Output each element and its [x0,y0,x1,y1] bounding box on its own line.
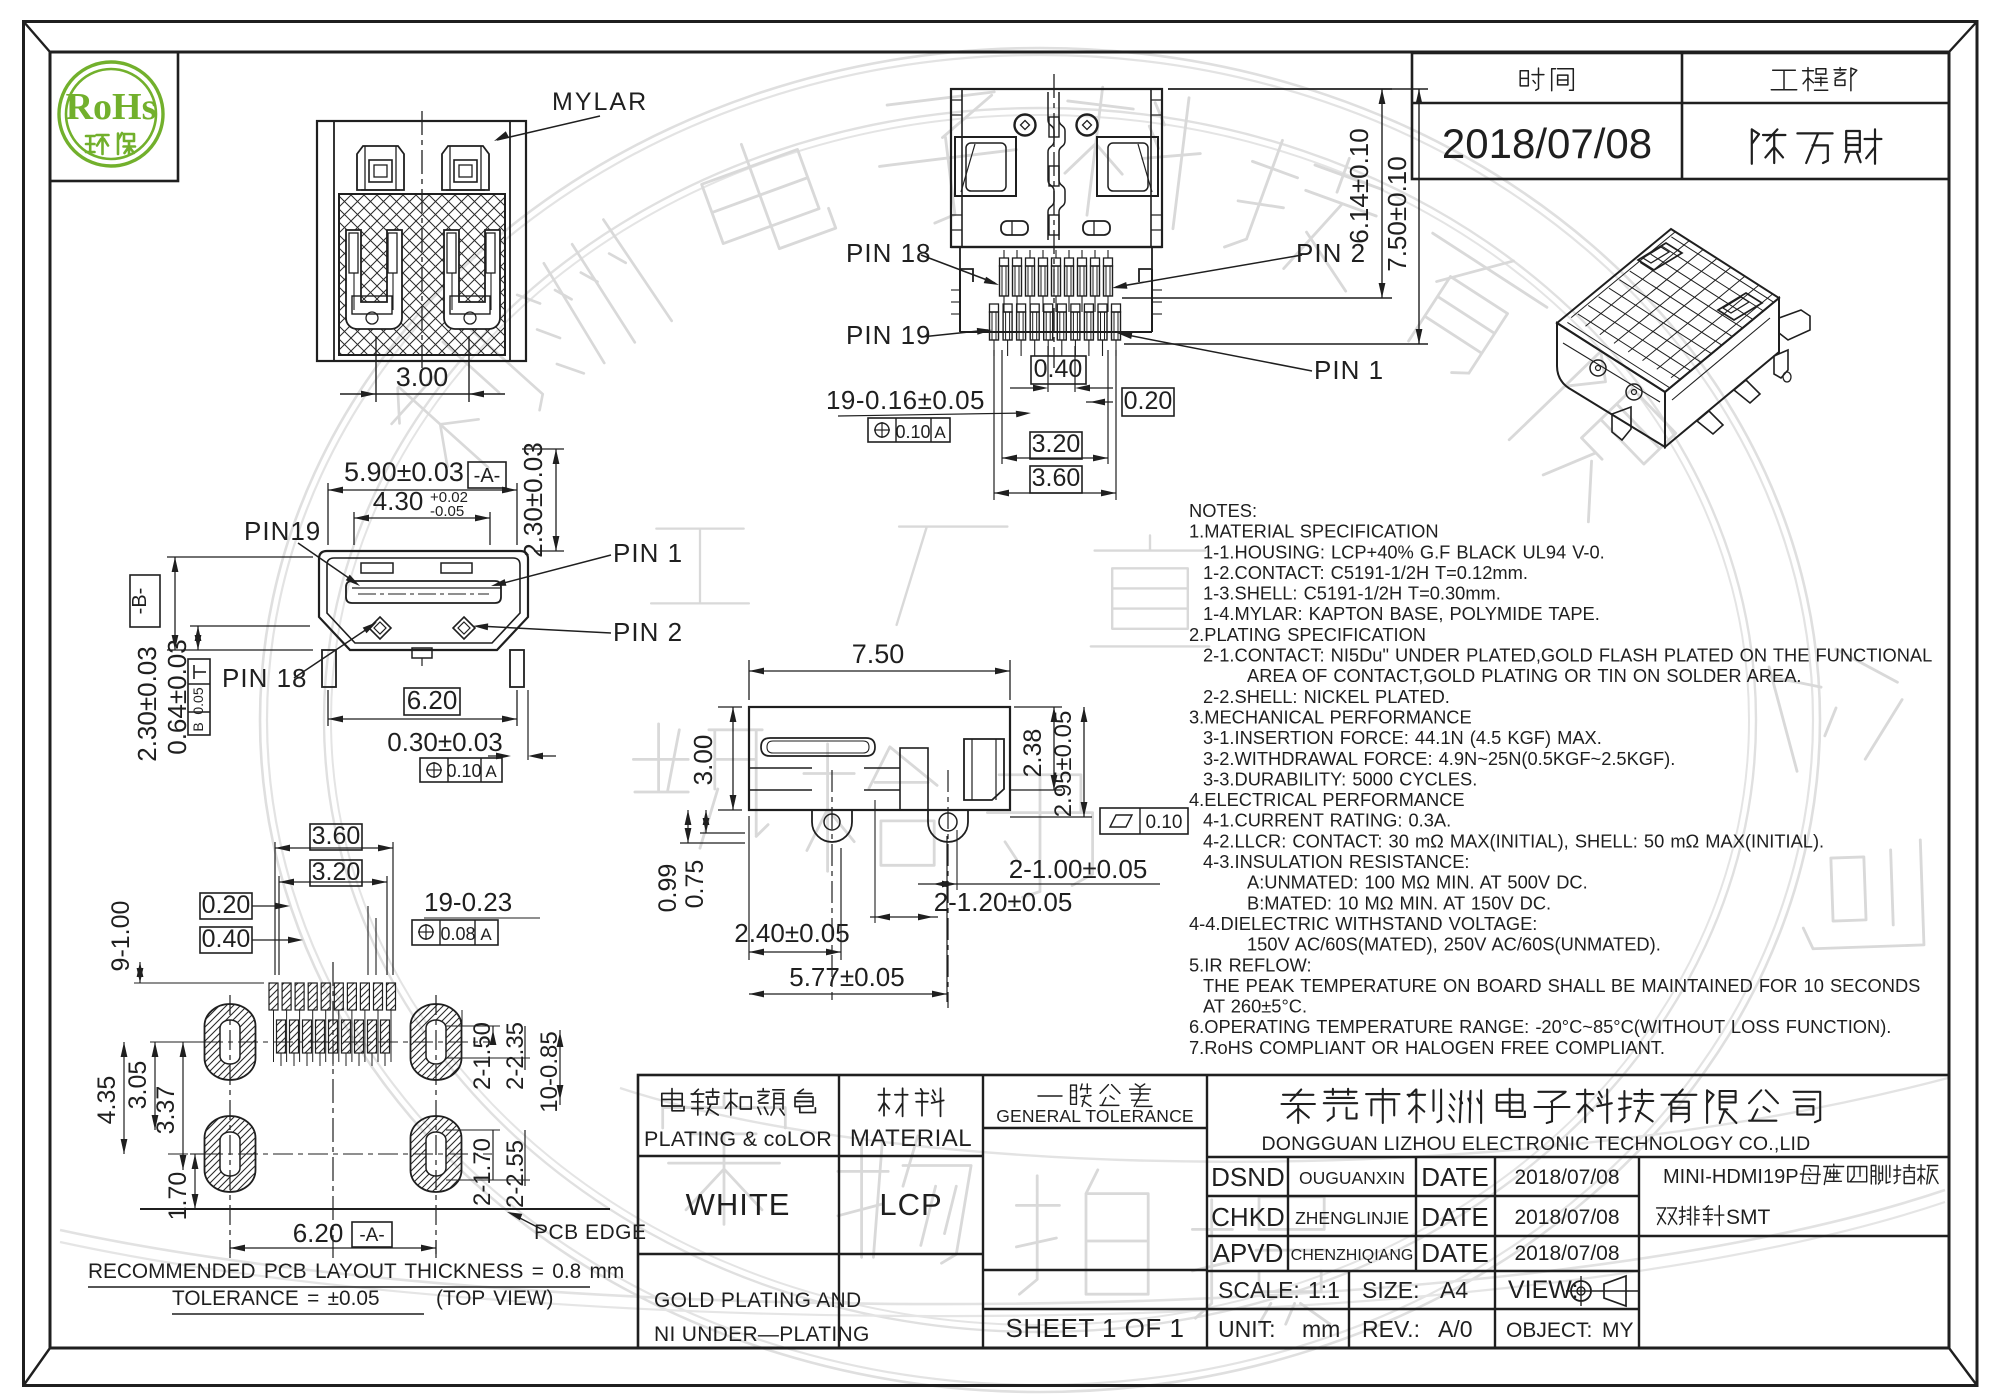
svg-text:0.05: 0.05 [190,687,206,714]
svg-text:2018/07/08: 2018/07/08 [1514,1242,1619,1265]
svg-text:0.10: 0.10 [895,422,930,442]
svg-text:CHKD: CHKD [1211,1202,1285,1232]
svg-text:A4: A4 [1440,1277,1468,1303]
svg-text:SMT: SMT [1726,1206,1771,1229]
svg-text:2.38: 2.38 [1019,729,1047,778]
oval mounting pads [205,1004,256,1080]
svg-text:VIEW:: VIEW: [1508,1276,1578,1304]
MYLAR label [494,88,648,141]
mating face view outline [319,551,528,650]
svg-text:3-2.WITHDRAWAL FORCE: 4.9N~2: 3-2.WITHDRAWAL FORCE: 4.9N~25N(0.5KGF~2.… [1203,748,1675,769]
svg-text:0.40: 0.40 [202,925,251,953]
svg-text:UNIT:: UNIT: [1218,1316,1276,1342]
svg-text:0.20: 0.20 [1124,387,1173,415]
svg-text:GOLD PLATING AND: GOLD PLATING AND [654,1289,861,1312]
svg-text:4-4.DIELECTRIC WITHSTAND VOL: 4-4.DIELECTRIC WITHSTAND VOLTAGE: [1189,913,1537,934]
mylar clips [357,146,404,190]
PIN 1 label [1117,332,1384,385]
svg-text:2-1.50: 2-1.50 [469,1022,496,1090]
svg-text:150V AC/60S(MATED), 250V AC: 150V AC/60S(MATED), 250V AC/60S(UNMATED)… [1247,934,1661,955]
svg-text:3.00: 3.00 [688,735,718,786]
dimension 2-1.20±0.05 [870,800,1072,923]
dimension 0.75 / 0.99 [654,810,745,912]
approval rows [1211,1162,1619,1268]
svg-text:PIN 2: PIN 2 [613,617,683,647]
svg-text:-A-: -A- [474,465,501,487]
svg-text:2.95±0.05: 2.95±0.05 [1050,711,1077,818]
svg-text:-0.05: -0.05 [430,503,464,520]
svg-text:CHENZHIQIANG: CHENZHIQIANG [1291,1247,1414,1264]
dimension 4.35 [93,1042,127,1154]
perpendicularity frame (vertical) [188,659,210,735]
PCB centerlines [332,962,334,1258]
dimension 2.30±0.03 (left) [132,557,313,762]
svg-text:PCB EDGE: PCB EDGE [534,1221,647,1244]
dimension 9-1.00 [107,901,264,983]
svg-text:5.IR REFLOW:: 5.IR REFLOW: [1189,954,1312,975]
svg-text:4.30: 4.30 [373,486,424,516]
side view body [749,707,1010,842]
dimension 0.40 (boxed, pcb) [200,925,303,953]
dimension 3.60 (boxed) [994,350,1116,500]
svg-text:1.MATERIAL SPECIFICATION: 1.MATERIAL SPECIFICATION [1189,521,1439,542]
svg-text:3-3.DURABILITY: 5000 CYCLES.: 3-3.DURABILITY: 5000 CYCLES. [1203,768,1477,789]
svg-text:PIN 1: PIN 1 [613,538,683,568]
svg-text:0.99: 0.99 [654,864,682,913]
dimension 0.30±0.03 with position frame [387,690,556,782]
svg-text:DATE: DATE [1421,1238,1488,1268]
svg-text:SCALE:: SCALE: [1218,1277,1300,1303]
svg-text:2.30±0.03: 2.30±0.03 [132,646,162,761]
tongue [346,581,501,603]
watermark characters [377,83,1924,1324]
svg-text:19-0.23: 19-0.23 [424,887,512,917]
svg-text:TOLERANCE = ±0.05: TOLERANCE = ±0.05 [172,1287,380,1310]
svg-text:2-1.00±0.05: 2-1.00±0.05 [1009,854,1148,884]
screw holes [1015,115,1036,136]
svg-text:mm: mm [1302,1316,1340,1342]
svg-text:4-1.CURRENT RATING: 0.3A.: 4-1.CURRENT RATING: 0.3A. [1203,810,1451,831]
dimension 6.20 (boxed) [328,685,517,726]
svg-text:4.35: 4.35 [93,1076,121,1125]
svg-text:APVD: APVD [1213,1238,1284,1268]
svg-text:B: B [190,722,206,731]
PIN 18 label [846,238,999,285]
RoHS logo box [50,52,178,181]
svg-text:MYLAR: MYLAR [552,88,648,116]
PCB note text [88,1260,624,1314]
legs [322,650,336,687]
svg-text:GENERAL TOLERANCE: GENERAL TOLERANCE [996,1106,1194,1126]
dimension 1.70 [164,1154,204,1220]
svg-text:NI UNDER—PLATING: NI UNDER—PLATING [654,1323,870,1346]
svg-text:3-1.INSERTION FORCE: 44.1N: 3-1.INSERTION FORCE: 44.1N (4.5 KGF) MAX… [1203,727,1602,748]
svg-text:MINI-HDMI19P: MINI-HDMI19P [1663,1166,1799,1188]
dimension 2.40±0.05 [734,816,849,960]
small oval slots [1001,221,1028,235]
svg-text:2.PLATING SPECIFICATION: 2.PLATING SPECIFICATION [1189,624,1426,645]
PIN 1 label (view C) [491,538,683,586]
svg-text:3.00: 3.00 [396,362,449,392]
dimension 6.14±0.10 [1122,89,1392,298]
dimension 3.00 [340,336,505,402]
svg-text:9-1.00: 9-1.00 [107,901,135,972]
svg-text:A: A [934,423,946,442]
svg-text:1-3.SHELL: C5191-1/2H T=0.30: 1-3.SHELL: C5191-1/2H T=0.30mm. [1203,583,1501,604]
contact channels (U shapes) [346,230,402,329]
svg-text:OUGUANXIN: OUGUANXIN [1299,1168,1405,1188]
svg-text:OBJECT:: OBJECT: [1506,1319,1592,1342]
top view centerline [1053,74,1055,368]
svg-text:2018/07/08: 2018/07/08 [1442,120,1652,167]
unit/rev/object row [1218,1316,1634,1342]
datum B box [129,575,160,627]
PIN 2 label [1112,238,1366,289]
svg-text:5.77±0.05: 5.77±0.05 [789,962,904,992]
svg-text:-A-: -A- [359,1225,384,1246]
dimension 2.30±0.03 (right) [518,442,564,557]
dimension 3.20 (boxed) [1002,350,1108,464]
svg-text:2-1.70: 2-1.70 [469,1138,496,1206]
dimension 0.64±0.03 [162,626,310,755]
svg-text:SIZE:: SIZE: [1362,1277,1420,1303]
svg-text:RECOMMENDED PCB LAYOUT THIC: RECOMMENDED PCB LAYOUT THICKNESS = 0.8 m… [88,1260,624,1283]
svg-text:ZHENGLINJIE: ZHENGLINJIE [1295,1208,1409,1228]
svg-text:7.50: 7.50 [852,639,905,669]
svg-text:A/0: A/0 [1438,1316,1473,1342]
svg-text:2-2.SHELL: NICKEL PLATED.: 2-2.SHELL: NICKEL PLATED. [1203,686,1450,707]
svg-text:1-4.MYLAR: KAPTON BASE, POL: 1-4.MYLAR: KAPTON BASE, POLYMIDE TAPE. [1203,603,1600,624]
svg-text:RoHs: RoHs [66,86,157,128]
svg-text:3.60: 3.60 [312,822,361,850]
svg-text:-B-: -B- [129,588,151,615]
svg-text:6.20: 6.20 [293,1218,344,1248]
isometric 3D view of connector [1514,189,1885,447]
svg-text:DONGGUAN LIZHOU ELECTRONIC TEC: DONGGUAN LIZHOU ELECTRONIC TECHNOLOGY CO… [1262,1133,1811,1155]
dimension 0.40 (boxed) [1010,346,1113,392]
dimension 3.05 [124,1042,204,1130]
title block grid [638,1075,1949,1348]
svg-text:2-1.20±0.05: 2-1.20±0.05 [934,887,1073,917]
dimension 3.20 (boxed, pcb) [279,858,387,975]
svg-text:2.30±0.03: 2.30±0.03 [518,442,548,557]
dimension 3.60 (boxed, pcb) [275,822,393,975]
svg-text:0.20: 0.20 [202,891,251,919]
svg-text:0.75: 0.75 [681,860,709,909]
dimension 0.20 (boxed) [1086,387,1174,416]
svg-text:2-1.CONTACT: NI5Du" UNDER P: 2-1.CONTACT: NI5Du" UNDER PLATED,GOLD FL… [1203,645,1932,666]
svg-text:1-1.HOUSING: LCP+40% G.F BL: 1-1.HOUSING: LCP+40% G.F BLACK UL94 V-0. [1203,541,1605,562]
svg-text:SHEET 1 OF 1: SHEET 1 OF 1 [1006,1313,1185,1343]
center zigzag slot [1048,92,1065,240]
PCB pads bottom row [277,1020,390,1066]
svg-text:1-2.CONTACT: C5191-1/2H T=0.: 1-2.CONTACT: C5191-1/2H T=0.12mm. [1203,562,1528,583]
svg-text:6.20: 6.20 [407,685,458,715]
svg-text:0.30±0.03: 0.30±0.03 [387,727,502,757]
svg-text:MATERIAL: MATERIAL [850,1125,972,1152]
svg-text:2.40±0.05: 2.40±0.05 [734,918,849,948]
PIN 19 label [846,320,992,350]
svg-text:7.50±0.10: 7.50±0.10 [1382,156,1412,271]
svg-text:2018/07/08: 2018/07/08 [1514,1206,1619,1229]
PIN19 label [244,516,360,586]
svg-text:1:1: 1:1 [1308,1277,1340,1303]
dimension 0.20 (boxed, pcb) [200,891,290,919]
bottom tab [412,648,432,668]
dimension 3.37 [152,1042,186,1170]
svg-text:DATE: DATE [1421,1162,1488,1192]
svg-text:AREA OF CONTACT,GOLD PLATIN: AREA OF CONTACT,GOLD PLATING OR TIN ON S… [1247,665,1802,686]
date / department table [1412,53,1949,179]
svg-text:0.10: 0.10 [446,761,481,781]
bottom pin row (10 pins) [990,304,1121,356]
mylar hatch block [339,194,505,355]
svg-text:DATE: DATE [1421,1202,1488,1232]
svg-text:2018/07/08: 2018/07/08 [1514,1166,1619,1189]
side view centerlines [831,770,833,1000]
svg-text:3.MECHANICAL PERFORMANCE: 3.MECHANICAL PERFORMANCE [1189,707,1472,728]
PIN 18 label (view C) [222,622,377,693]
dimension 5.90±0.03 and datum A [328,457,517,545]
general tolerance header [996,1084,1194,1126]
dimension 3.00 (side) [688,707,742,810]
PCB pads top row [269,983,396,1062]
product title [1657,1164,1939,1229]
svg-text:0.10: 0.10 [1146,812,1183,833]
svg-text:4-2.LLCR: CONTACT: 30 mΩ M: 4-2.LLCR: CONTACT: 30 mΩ MAX(INITIAL), S… [1203,830,1824,851]
svg-text:AT 260±5°C.: AT 260±5°C. [1203,996,1307,1017]
dimension 2.95±0.05 [1010,707,1092,817]
dimension 2.38 [1010,707,1062,790]
svg-text:3.37: 3.37 [152,1086,180,1135]
dimension 4.30 +0.02/-0.05 [354,486,490,545]
dimension 5.77±0.05 [749,836,947,1002]
dimension 7.50 (side) [749,639,1010,700]
latch shield blocks [955,137,1016,196]
svg-text:4.ELECTRICAL PERFORMANCE: 4.ELECTRICAL PERFORMANCE [1189,789,1465,810]
flatness frame [1100,808,1188,834]
svg-text:A:UNMATED: 100 MΩ MIN. AT: A:UNMATED: 100 MΩ MIN. AT 500V DC. [1247,872,1588,893]
dimension 2-1.00±0.05 [918,830,1160,890]
angled contacts [369,617,391,639]
svg-text:A: A [485,762,497,781]
dimension 19-0.23 with position frame [368,887,540,975]
top view body [951,89,1162,247]
svg-text:19-0.16±0.05: 19-0.16±0.05 [826,385,985,415]
top pin row (9 pins) [1000,250,1113,312]
svg-text:3.05: 3.05 [124,1061,152,1110]
svg-text:4-3.INSULATION RESISTANCE:: 4-3.INSULATION RESISTANCE: [1203,851,1469,872]
svg-text:PLATING & coLOR: PLATING & coLOR [644,1127,832,1151]
svg-text:1.70: 1.70 [164,1172,192,1221]
svg-text:3.60: 3.60 [1032,464,1081,492]
svg-text:6.OPERATING TEMPERATURE RANG: 6.OPERATING TEMPERATURE RANGE: -20°C~85°… [1189,1016,1891,1037]
material header [850,1088,972,1152]
svg-text:6.14±0.10: 6.14±0.10 [1344,128,1374,243]
svg-text:PIN 19: PIN 19 [846,320,932,350]
centerline [421,111,423,368]
svg-text:DSND: DSND [1211,1162,1285,1192]
svg-text:7.RoHS COMPLIANT OR HALOGEN: 7.RoHS COMPLIANT OR HALOGEN FREE COMPLIA… [1189,1037,1665,1058]
svg-text:REV.:: REV.: [1362,1316,1420,1342]
gold plating note [654,1289,870,1346]
svg-text:MY: MY [1602,1319,1634,1342]
svg-text:PIN 1: PIN 1 [1314,355,1384,385]
svg-text:THE PEAK TEMPERATURE ON BO: THE PEAK TEMPERATURE ON BOARD SHALL BE M… [1203,975,1920,996]
svg-text:3.20: 3.20 [1032,430,1081,458]
plating & color header [644,1089,832,1151]
dimensions right of pads [446,1010,563,1208]
svg-text:(TOP VIEW): (TOP VIEW) [436,1287,553,1310]
scale/size/view row [1218,1276,1640,1306]
svg-text:5.90±0.03: 5.90±0.03 [344,457,464,487]
dimension 7.50±0.10 [1124,89,1428,344]
svg-text:NOTES:: NOTES: [1189,500,1257,521]
PIN 2 label (view C) [473,617,683,647]
dimension 6.20 with datum A (pcb) [230,1218,436,1254]
front view (mylar side) outline [317,121,526,361]
svg-text:A: A [480,925,492,944]
dimension 19-0.16±0.05 with position frame [826,385,1031,442]
company name [1262,1089,1821,1155]
svg-text:B:MATED: 10 MΩ MIN. AT 15: B:MATED: 10 MΩ MIN. AT 150V DC. [1247,892,1551,913]
svg-text:LCP: LCP [879,1187,942,1222]
svg-text:0.08: 0.08 [440,924,475,944]
svg-text:WHITE: WHITE [686,1187,791,1222]
lower shell [951,247,1162,332]
svg-text:PIN 18: PIN 18 [846,238,932,268]
notes text block [1189,500,1932,1058]
PCB edge line [140,1209,647,1244]
svg-text:PIN19: PIN19 [244,516,321,546]
top notches [361,563,393,573]
